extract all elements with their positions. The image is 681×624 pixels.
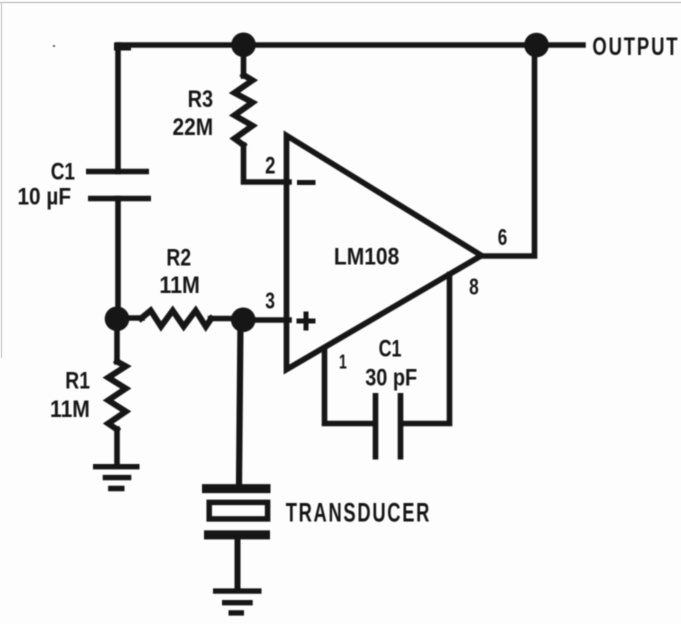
capacitor C1 30pF left plate (373, 393, 379, 460)
svg-text:R2: R2 (166, 245, 191, 272)
wire pin 8 lead (403, 275, 450, 424)
svg-text:OUTPUT: OUTPUT (592, 33, 679, 61)
svg-text:2: 2 (265, 152, 275, 179)
wire R2 left lead (118, 315, 142, 321)
svg-text:10 µF: 10 µF (18, 184, 72, 211)
wire left column lower (C1 to node) (115, 199, 121, 320)
svg-text:R3: R3 (188, 86, 214, 113)
wire pin 3 lead (242, 317, 289, 323)
svg-text:1: 1 (339, 352, 347, 374)
wire R2 right lead (211, 316, 244, 322)
transducer bottom plate (204, 530, 270, 539)
wire transducer bottom lead (235, 539, 241, 590)
ground below transducer (213, 591, 262, 613)
plus sign at non-inverting input (297, 312, 316, 331)
junction node at top of R3 (231, 33, 256, 58)
svg-text:C1: C1 (379, 336, 402, 363)
wire R3 top lead (241, 45, 247, 76)
svg-text:11M: 11M (50, 396, 90, 423)
junction left node (C1/R1/R2) (105, 307, 130, 332)
svg-text:8: 8 (469, 274, 479, 300)
resistor R2 (141, 311, 211, 327)
transducer top plate (202, 484, 271, 493)
svg-text:TRANSDUCER: TRANSDUCER (286, 498, 431, 528)
capacitor C1 30pF right plate (398, 393, 404, 460)
wire left column upper (top rail to C1) (115, 45, 121, 172)
wire R3 bottom lead to pin 2 (244, 145, 290, 182)
wire R1 bottom lead (114, 429, 120, 465)
wire R1 top lead (114, 319, 120, 362)
ground below R1 (93, 467, 140, 489)
svg-text:30 pF: 30 pF (365, 365, 417, 392)
svg-text:LM108: LM108 (334, 244, 399, 271)
wire pin 6 to output node (479, 45, 535, 256)
junction node at pin 3 / transducer (231, 308, 256, 333)
minus sign at inverting input (297, 180, 316, 185)
svg-text:3: 3 (265, 288, 275, 314)
wire output stub (536, 42, 583, 48)
capacitor C1 10uF bottom plate (88, 196, 151, 202)
transducer crystal body (209, 502, 267, 519)
svg-text:C1: C1 (51, 159, 75, 186)
wire transducer top lead (239, 320, 241, 484)
wire pin 1 lead (325, 349, 374, 424)
wire top rail (118, 42, 536, 48)
op-amp U1 LM108 triangle (287, 136, 482, 370)
svg-text:6: 6 (498, 224, 508, 250)
junction output node (524, 33, 549, 58)
svg-text:22M: 22M (173, 114, 214, 141)
capacitor C1 10uF top plate (86, 169, 149, 175)
wire corner reinforcement top-left (118, 43, 127, 51)
svg-text:11M: 11M (159, 272, 200, 299)
resistor R1 (108, 362, 126, 430)
svg-text:R1: R1 (65, 368, 90, 395)
resistor R3 (235, 75, 253, 145)
